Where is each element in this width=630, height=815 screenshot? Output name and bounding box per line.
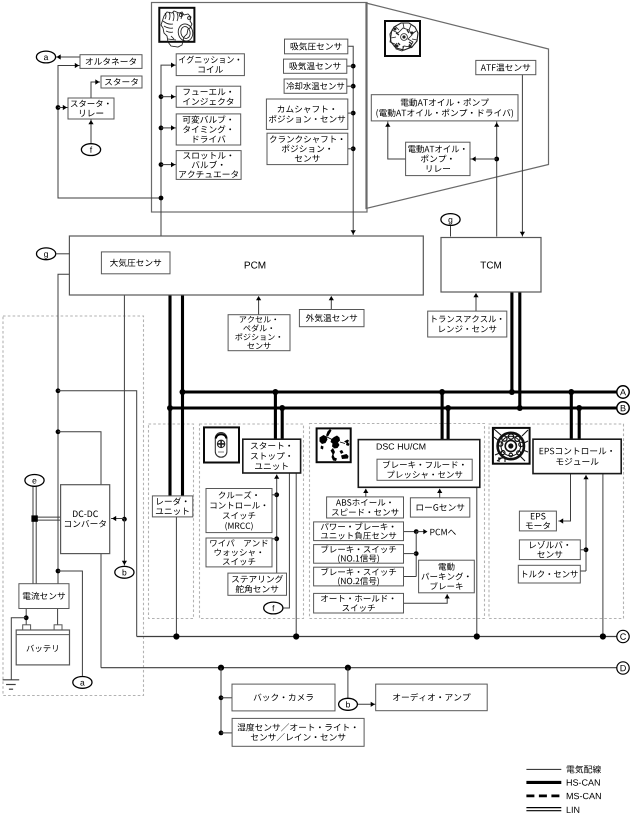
resolver sensor box	[519, 540, 580, 560]
wire: DC-DC converter bottom to D line	[100, 554, 102, 668]
node g right	[441, 214, 460, 226]
wire: PCM left supply bus down left side	[56, 274, 70, 583]
wire: D line to node b and audio amp	[348, 668, 376, 707]
key fob icon	[204, 427, 239, 462]
wire line D	[101, 665, 617, 671]
node g left	[37, 248, 70, 260]
low-G sensor box	[410, 498, 469, 517]
HS-CAN: PCM drop pair to radar unit	[167, 295, 186, 496]
PCM box	[69, 236, 423, 295]
wire: node f to starter relay	[88, 119, 93, 144]
alternator box	[80, 55, 142, 69]
current sensor box	[19, 584, 69, 609]
power brake unit vacuum sensor box	[314, 522, 404, 541]
radar unit box	[152, 496, 192, 517]
node B	[617, 402, 629, 414]
start-stop unit box	[243, 439, 301, 473]
transmission icon	[385, 21, 420, 56]
legend	[526, 765, 601, 813]
radar dashed panel	[149, 424, 194, 619]
wire: EPS module to C line	[602, 474, 604, 637]
HS-CAN line A	[183, 389, 618, 395]
wire: power bus from alternator down and right to engine ECU bus	[56, 63, 161, 198]
intake temp sensor box	[284, 59, 347, 73]
wire: start-stop switch bus	[272, 475, 279, 574]
steering wheel icon (EPS unit)	[493, 428, 530, 464]
transmission compartment outline (trapezoid)	[366, 3, 549, 209]
audio amp box	[376, 684, 488, 711]
intake pressure sensor box	[285, 39, 348, 54]
wire: auto hold switch to electric parking brake	[404, 594, 450, 603]
node b bottom	[339, 698, 358, 710]
wire: feed to C line	[58, 391, 137, 637]
wire: feed to node a bottom	[58, 571, 82, 676]
wire: DSC to C line	[476, 487, 478, 636]
wire: ABS wheel speed sensor to DSC	[363, 489, 368, 497]
wire: alternator to node a	[55, 54, 80, 59]
brake system icon	[317, 428, 351, 462]
wire: start-stop to node f	[283, 473, 289, 608]
wire: ATF sensor to TCM	[520, 75, 525, 237]
node e	[25, 475, 44, 487]
DC-DC converter box	[61, 485, 110, 554]
battery	[16, 625, 69, 665]
node f bottom	[264, 602, 283, 614]
torque sensor box	[518, 565, 580, 583]
node A	[617, 386, 629, 398]
node a top	[36, 51, 55, 63]
wire: battery right terminal to current sensor	[57, 609, 59, 625]
brake switch no.2 box	[314, 567, 404, 586]
wire: brake switches to PCM branch	[404, 529, 428, 577]
wire: accelerator pedal sensor to PCM	[256, 296, 261, 315]
HS-CAN: DSC drop pair	[442, 392, 448, 440]
TCM box	[441, 238, 541, 293]
wire line C	[137, 633, 617, 639]
wire: feed to DC-DC converter top	[58, 432, 101, 485]
wire: torque/resolver sensor bus to EPS module	[580, 475, 588, 571]
ignition coil box	[176, 54, 244, 76]
starter relay box	[68, 98, 114, 119]
node a bottom	[73, 677, 92, 689]
wire: AT oil pump relay to pump driver	[385, 122, 405, 160]
HS-CAN: start-stop unit drop pair	[275, 392, 282, 439]
battery/charging dashed enclosure	[3, 316, 144, 696]
start-stop dashed panel	[200, 424, 304, 619]
crankshaft position sensor box	[267, 133, 348, 164]
wiper washer switch box	[206, 538, 272, 567]
EPS control module box	[533, 439, 621, 473]
HS-CAN: EPS drop pair	[571, 392, 579, 439]
node b left	[115, 566, 134, 578]
EPS dashed panel	[489, 424, 624, 619]
ambient temperature sensor box	[299, 310, 364, 327]
brake switch no.1 box	[314, 545, 404, 564]
barometric pressure sensor box	[101, 252, 170, 274]
DSC HU/CM box	[358, 440, 480, 488]
auto hold switch box	[314, 593, 404, 613]
fuel injector box	[176, 86, 241, 107]
wire: transaxle range sensor to TCM	[473, 293, 478, 311]
steering angle sensor box	[228, 573, 287, 595]
wire: low-G sensor to DSC	[437, 489, 442, 498]
cruise control switch box	[206, 489, 272, 533]
wire: EPS module to EPS motor	[558, 474, 570, 524]
starter box	[101, 76, 142, 88]
camshaft position sensor box	[266, 99, 347, 129]
back camera box	[232, 684, 335, 711]
ATF temp sensor box	[476, 60, 536, 74]
electric parking brake box	[419, 560, 475, 593]
engine compartment outline	[152, 3, 368, 213]
throttle valve actuator box	[176, 151, 241, 180]
HS-CAN: TCM drop pair	[512, 292, 520, 408]
node f top	[81, 144, 100, 156]
wire: LIN double line node e to current sensor and DC-DC	[31, 486, 60, 584]
wire: engine actuator bus with branches	[159, 63, 176, 237]
HS-CAN line B	[170, 405, 617, 411]
EPS motor box	[519, 511, 556, 531]
coolant temp sensor box	[284, 79, 347, 93]
wire: start-stop to C line	[295, 473, 297, 637]
wire: node g right to TCM	[450, 225, 452, 236]
wire: ambient temp sensor to PCM	[329, 296, 334, 310]
wire: radar unit to C line	[175, 517, 177, 637]
wire: starter relay to starter	[91, 79, 100, 98]
transaxle range sensor box	[428, 311, 507, 337]
wire: current sensor to battery and ground	[11, 609, 28, 680]
node D	[617, 662, 629, 674]
wire: engine sensor bus into PCM	[347, 46, 356, 235]
ground symbol	[3, 680, 20, 689]
electric AT oil pump driver box	[371, 95, 518, 121]
engine icon	[159, 8, 194, 47]
humidity/auto-light/rain sensor box	[232, 718, 364, 746]
ABS wheel speed sensor box	[327, 497, 404, 518]
DSC dashed panel	[310, 424, 485, 619]
wire: D line to back camera and humidity sensors	[219, 668, 232, 736]
electric AT oil pump relay box	[406, 142, 470, 175]
wire: PCM to DC-DC converter and node b	[111, 295, 127, 566]
node C	[617, 630, 629, 642]
wire: AT pump feed to TCM	[470, 122, 499, 237]
variable valve timing driver box	[176, 114, 241, 145]
to PCM label	[430, 529, 455, 536]
accelerator pedal position sensor box	[228, 315, 290, 351]
